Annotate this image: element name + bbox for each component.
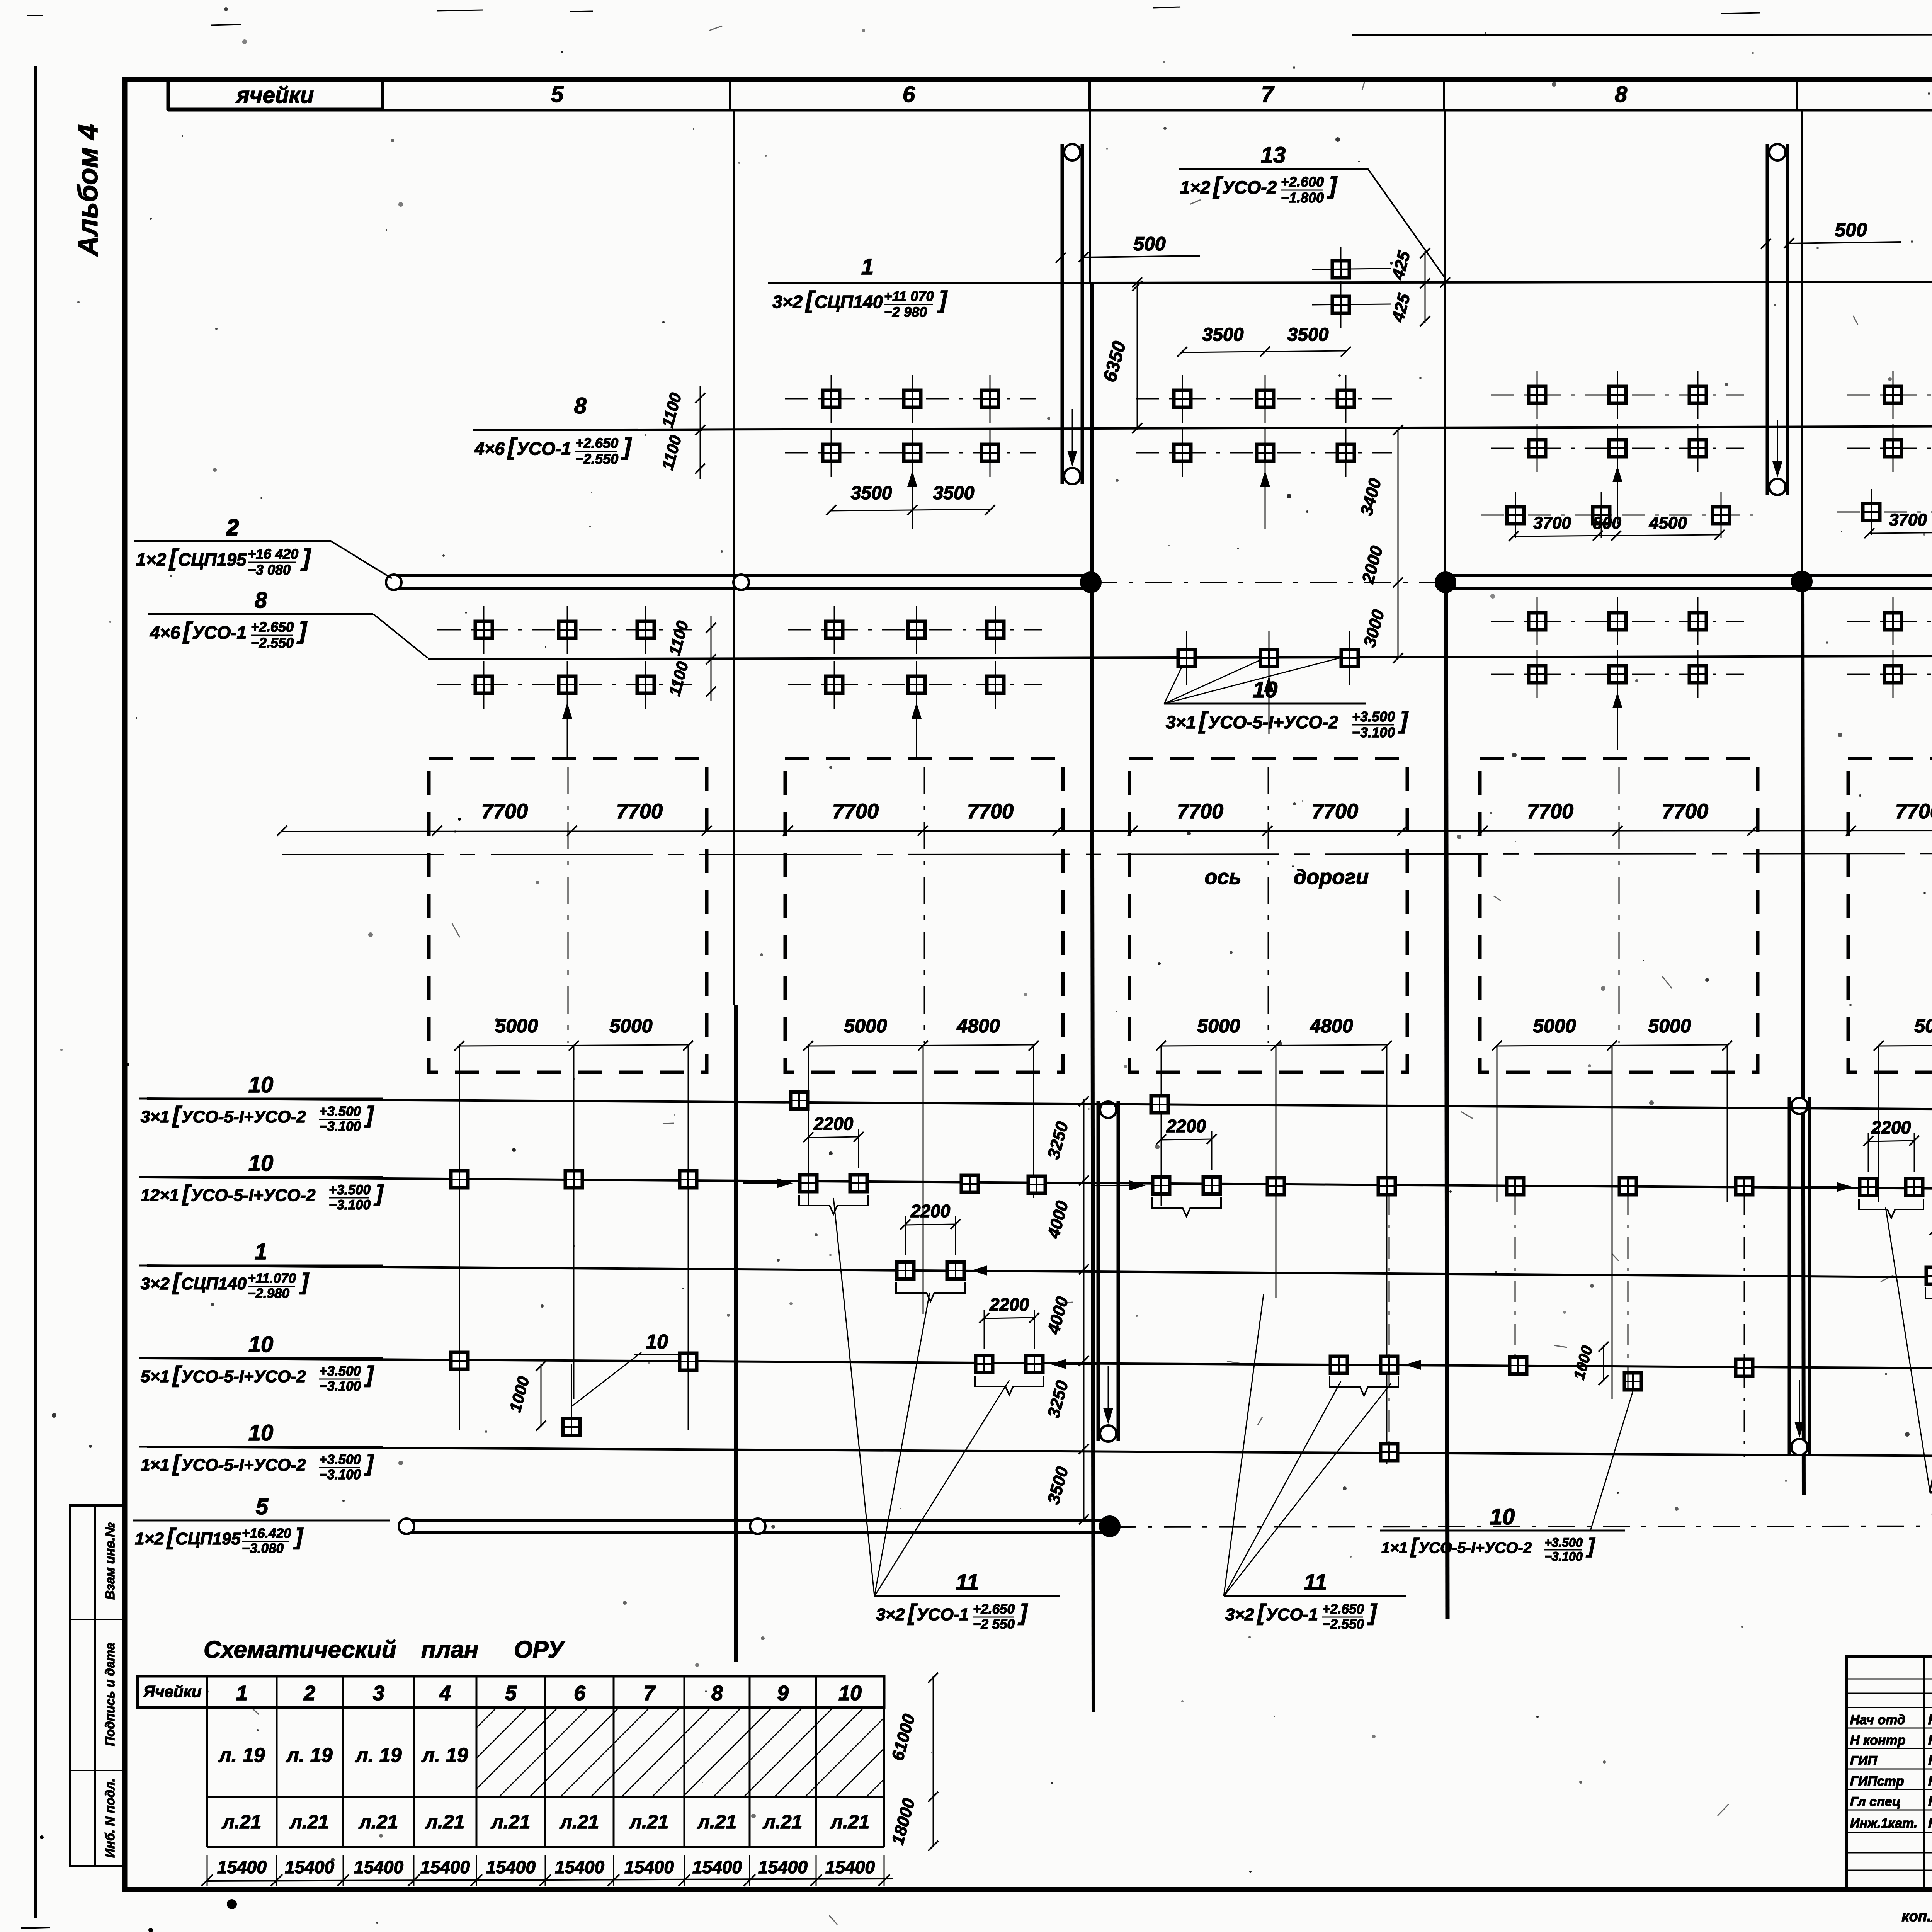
svg-text:л.21: л.21 (289, 1811, 329, 1833)
svg-text:−1.800: −1.800 (1281, 190, 1324, 206)
svg-text:3500: 3500 (1287, 325, 1329, 345)
svg-text:ГИПстр: ГИПстр (1850, 1774, 1904, 1789)
svg-text:7700: 7700 (967, 800, 1014, 823)
svg-text:6: 6 (574, 1682, 586, 1705)
svg-text:+3.500: +3.500 (319, 1452, 361, 1467)
svg-text:3500: 3500 (1202, 325, 1244, 345)
svg-text:15400: 15400 (825, 1857, 875, 1877)
svg-text:−2.550: −2.550 (1322, 1617, 1364, 1632)
svg-text:коп.Яоз.: коп.Яоз. (1901, 1908, 1932, 1925)
svg-text:−2 550: −2 550 (973, 1617, 1015, 1632)
svg-text:3700: 3700 (1889, 510, 1927, 529)
svg-text:+2.600: +2.600 (1281, 174, 1324, 190)
svg-text:+3.500: +3.500 (1544, 1536, 1583, 1549)
svg-text:Схематический: Схематический (204, 1636, 396, 1663)
svg-text:5000: 5000 (1914, 1015, 1932, 1037)
svg-text:2200: 2200 (910, 1201, 951, 1221)
svg-text:л.21: л.21 (222, 1811, 262, 1833)
svg-text:5: 5 (505, 1682, 517, 1705)
svg-text:1×2: 1×2 (1180, 177, 1210, 197)
svg-text:10: 10 (248, 1332, 274, 1357)
svg-text:Нач отд: Нач отд (1850, 1713, 1905, 1727)
svg-text:7700: 7700 (832, 800, 879, 823)
svg-text:8: 8 (255, 588, 267, 613)
svg-text:10: 10 (248, 1420, 274, 1446)
svg-text:л.21: л.21 (830, 1811, 870, 1833)
svg-text:УСО-1: УСО-1 (917, 1605, 969, 1624)
svg-text:4800: 4800 (956, 1015, 1000, 1037)
svg-text:10: 10 (838, 1682, 862, 1705)
svg-text:Ячейки: Ячейки (143, 1682, 201, 1701)
svg-text:15400: 15400 (217, 1857, 267, 1877)
svg-text:4×6: 4×6 (150, 622, 180, 643)
svg-text:УСО-1: УСО-1 (192, 622, 247, 643)
svg-text:7: 7 (643, 1682, 656, 1705)
svg-text:7700: 7700 (1662, 800, 1708, 823)
svg-text:ячейки: ячейки (235, 83, 314, 108)
svg-text:+11.070: +11.070 (248, 1271, 296, 1286)
svg-text:л. 19: л. 19 (285, 1744, 332, 1767)
svg-text:4500: 4500 (1649, 514, 1687, 532)
svg-text:7700: 7700 (1312, 800, 1358, 823)
svg-text:800: 800 (1593, 514, 1621, 532)
svg-text:−3.100: −3.100 (329, 1197, 371, 1213)
svg-text:−3.080: −3.080 (242, 1541, 284, 1556)
svg-text:+2.650: +2.650 (251, 619, 294, 635)
svg-text:5000: 5000 (844, 1015, 887, 1037)
svg-text:+3.500: +3.500 (329, 1182, 371, 1197)
svg-text:15400: 15400 (354, 1857, 403, 1877)
svg-text:15400: 15400 (758, 1857, 808, 1877)
svg-text:8: 8 (1615, 82, 1628, 107)
svg-text:УСО-5-I+УСО-2: УСО-5-I+УСО-2 (191, 1186, 316, 1205)
svg-text:УСО-5-I+УСО-2: УСО-5-I+УСО-2 (181, 1107, 306, 1126)
svg-text:Калугина: Калугина (1928, 1752, 1932, 1768)
svg-text:10: 10 (248, 1072, 274, 1097)
svg-text:УСО-5-I+УСО-2: УСО-5-I+УСО-2 (181, 1367, 306, 1386)
svg-text:5×1: 5×1 (141, 1367, 170, 1386)
svg-text:7: 7 (1261, 82, 1275, 107)
svg-text:6: 6 (903, 82, 915, 107)
svg-text:3×2: 3×2 (876, 1605, 905, 1624)
svg-text:Колинько: Колинько (1928, 1815, 1932, 1831)
svg-text:Н контр: Н контр (1850, 1733, 1906, 1748)
svg-text:3×2: 3×2 (141, 1274, 170, 1293)
svg-text:Инж.1кат.: Инж.1кат. (1850, 1816, 1917, 1831)
svg-text:л. 19: л. 19 (218, 1744, 265, 1767)
svg-text:7700: 7700 (1527, 800, 1573, 823)
svg-text:10: 10 (1490, 1504, 1515, 1529)
svg-text:15400: 15400 (692, 1857, 742, 1877)
svg-text:СЦП195: СЦП195 (178, 549, 247, 570)
svg-text:−2.550: −2.550 (251, 635, 294, 651)
svg-text:УСО-5-I+УСО-2: УСО-5-I+УСО-2 (1208, 712, 1338, 732)
svg-text:500: 500 (1835, 219, 1867, 241)
svg-text:СЦП140: СЦП140 (815, 292, 883, 312)
svg-text:1×2: 1×2 (135, 1529, 164, 1548)
svg-text:2200: 2200 (989, 1294, 1029, 1315)
svg-text:15400: 15400 (420, 1857, 470, 1877)
svg-text:8: 8 (711, 1682, 723, 1705)
svg-text:1: 1 (236, 1682, 248, 1705)
svg-text:2200: 2200 (813, 1114, 854, 1134)
svg-text:4: 4 (439, 1682, 451, 1705)
svg-text:ось: ось (1204, 866, 1241, 889)
svg-text:11: 11 (1304, 1570, 1327, 1595)
svg-text:л. 19: л. 19 (354, 1744, 401, 1767)
svg-text:+16 420: +16 420 (248, 546, 298, 562)
svg-text:Ковалев: Ковалев (1928, 1773, 1932, 1789)
svg-text:15400: 15400 (624, 1857, 674, 1877)
svg-text:−2 980: −2 980 (884, 304, 927, 320)
svg-text:УСО-1: УСО-1 (517, 439, 571, 459)
svg-text:3700: 3700 (1533, 514, 1571, 532)
svg-text:1: 1 (255, 1239, 267, 1264)
svg-text:3500: 3500 (851, 483, 892, 503)
svg-text:−3.100: −3.100 (1352, 724, 1395, 740)
svg-text:3500: 3500 (933, 483, 975, 503)
svg-text:УСО-5-I+УСО-2: УСО-5-I+УСО-2 (1418, 1539, 1532, 1556)
svg-text:л.21: л.21 (763, 1811, 803, 1833)
svg-text:5000: 5000 (1533, 1015, 1576, 1037)
svg-text:7700: 7700 (1177, 800, 1223, 823)
svg-text:−3 080: −3 080 (248, 562, 291, 578)
svg-text:+16.420: +16.420 (242, 1526, 291, 1541)
svg-text:5000: 5000 (609, 1015, 652, 1037)
svg-text:13: 13 (1261, 143, 1286, 168)
svg-text:3×2: 3×2 (772, 292, 803, 312)
svg-text:+3.500: +3.500 (1352, 709, 1395, 724)
svg-text:3×2: 3×2 (1225, 1605, 1254, 1624)
svg-text:15400: 15400 (555, 1857, 604, 1877)
svg-text:4800: 4800 (1310, 1015, 1353, 1037)
svg-text:1: 1 (861, 254, 874, 279)
svg-text:л.21: л.21 (629, 1811, 669, 1833)
svg-text:15400: 15400 (285, 1857, 334, 1877)
svg-text:+2.650: +2.650 (1322, 1602, 1364, 1617)
svg-text:л.21: л.21 (491, 1811, 531, 1833)
svg-text:Ковалев: Ковалев (1928, 1732, 1932, 1748)
svg-text:4×6: 4×6 (474, 439, 505, 459)
svg-text:1×1: 1×1 (1381, 1539, 1408, 1556)
svg-text:УСО-2: УСО-2 (1222, 177, 1277, 197)
svg-text:3×1: 3×1 (1166, 712, 1196, 732)
svg-text:дороги: дороги (1294, 866, 1369, 889)
svg-text:9: 9 (777, 1682, 789, 1705)
svg-text:+2.650: +2.650 (575, 435, 618, 451)
svg-text:ОРУ: ОРУ (514, 1636, 565, 1663)
svg-text:10: 10 (646, 1331, 668, 1353)
svg-text:7700: 7700 (481, 800, 528, 823)
svg-text:3: 3 (373, 1682, 384, 1705)
svg-text:5: 5 (256, 1494, 269, 1519)
svg-text:−3.100: −3.100 (319, 1119, 361, 1134)
svg-text:СЦП140: СЦП140 (181, 1274, 247, 1293)
svg-text:Гл спец: Гл спец (1850, 1794, 1901, 1809)
svg-text:л.21: л.21 (425, 1811, 465, 1833)
svg-text:10: 10 (248, 1151, 274, 1176)
svg-text:+2.650: +2.650 (973, 1602, 1015, 1617)
svg-text:−2.980: −2.980 (248, 1286, 290, 1301)
svg-text:11: 11 (956, 1570, 979, 1595)
svg-text:УСО-5-I+УСО-2: УСО-5-I+УСО-2 (181, 1456, 306, 1475)
svg-text:3×1: 3×1 (141, 1107, 170, 1126)
svg-text:2: 2 (303, 1682, 315, 1705)
svg-text:Кирсанова: Кирсанова (1928, 1793, 1932, 1809)
svg-text:15400: 15400 (486, 1857, 536, 1877)
svg-text:Инб. N подл.: Инб. N подл. (103, 1778, 117, 1858)
svg-text:2200: 2200 (1166, 1116, 1206, 1136)
svg-text:12×1: 12×1 (141, 1186, 179, 1205)
svg-text:1×2: 1×2 (136, 549, 166, 570)
svg-text:8: 8 (574, 393, 587, 418)
svg-text:УСО-1: УСО-1 (1266, 1605, 1318, 1624)
svg-text:Роменский: Роменский (1928, 1711, 1932, 1727)
svg-text:2: 2 (226, 515, 239, 540)
svg-text:7700: 7700 (616, 800, 663, 823)
svg-text:−3.100: −3.100 (1544, 1549, 1583, 1563)
svg-text:+11 070: +11 070 (884, 288, 934, 304)
svg-text:л. 19: л. 19 (421, 1744, 468, 1767)
svg-text:+3.500: +3.500 (319, 1364, 361, 1379)
svg-text:−2.550: −2.550 (575, 451, 618, 467)
svg-text:план: план (421, 1636, 478, 1663)
svg-text:5000: 5000 (1648, 1015, 1691, 1037)
svg-text:Подпись и дата: Подпись и дата (103, 1643, 117, 1746)
svg-text:−3.100: −3.100 (319, 1467, 361, 1482)
svg-text:л.21: л.21 (359, 1811, 398, 1833)
svg-text:л.21: л.21 (697, 1811, 737, 1833)
svg-text:5000: 5000 (1197, 1015, 1240, 1037)
svg-text:1×1: 1×1 (141, 1456, 170, 1475)
svg-text:Альбом 4: Альбом 4 (73, 124, 104, 257)
svg-text:−3.100: −3.100 (319, 1379, 361, 1394)
svg-text:5000: 5000 (495, 1015, 538, 1037)
svg-text:2200: 2200 (1871, 1117, 1911, 1138)
svg-text:5: 5 (551, 82, 564, 107)
svg-text:СЦП195: СЦП195 (175, 1529, 241, 1548)
svg-text:+3.500: +3.500 (319, 1104, 361, 1119)
svg-text:500: 500 (1133, 233, 1166, 255)
svg-text:ГИП: ГИП (1850, 1753, 1878, 1768)
svg-text:л.21: л.21 (560, 1811, 599, 1833)
svg-text:7700: 7700 (1895, 800, 1932, 823)
svg-text:Взам инв.№: Взам инв.№ (103, 1522, 117, 1600)
